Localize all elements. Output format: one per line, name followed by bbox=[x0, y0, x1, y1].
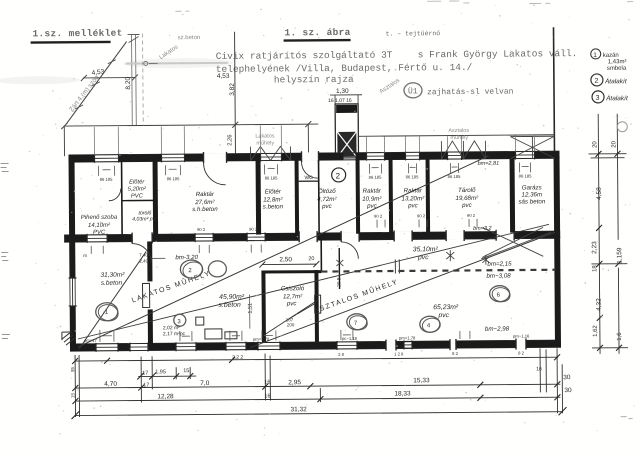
svg-text:1.sz. melléklet: 1.sz. melléklet bbox=[32, 28, 122, 40]
svg-text:20: 20 bbox=[611, 140, 617, 147]
svg-text:Átalakít: Átalakít bbox=[605, 93, 629, 102]
extension line above top wall (left) bbox=[64, 124, 318, 126]
svg-text:19,68m²: 19,68m² bbox=[455, 195, 479, 202]
bottom dim labels bbox=[104, 352, 572, 415]
svg-text:45,90m²: 45,90m² bbox=[219, 294, 245, 301]
svg-text:4,58: 4,58 bbox=[596, 187, 603, 200]
svg-text:Civix ratjárítós szolgáltató 3: Civix ratjárítós szolgáltató 3T bbox=[216, 50, 393, 62]
svg-text:zajhatás-sl velvan: zajhatás-sl velvan bbox=[427, 88, 514, 98]
svg-text:2,50: 2,50 bbox=[279, 256, 292, 263]
svg-text:kazán: kazán bbox=[603, 53, 619, 59]
radiators bbox=[143, 282, 321, 314]
svg-text:90 2: 90 2 bbox=[197, 227, 206, 232]
svg-text:bm=2,15: bm=2,15 bbox=[487, 261, 512, 268]
svg-text:15,33: 15,33 bbox=[413, 377, 430, 384]
svg-text:20: 20 bbox=[592, 141, 598, 148]
svg-text:műhely: műhely bbox=[450, 135, 468, 141]
typed paragraph bbox=[216, 48, 578, 99]
svg-text:s.h.beton: s.h.beton bbox=[192, 206, 218, 213]
svg-text:10,9m²: 10,9m² bbox=[362, 196, 382, 203]
svg-text:8 2: 8 2 bbox=[452, 351, 459, 356]
svg-text:20: 20 bbox=[308, 256, 314, 262]
ticks on courtyard diagonal bbox=[75, 35, 141, 110]
csiszolo arrows bbox=[265, 300, 318, 334]
svg-text:4,70: 4,70 bbox=[104, 381, 117, 388]
svg-text:15: 15 bbox=[70, 393, 75, 399]
svg-text:PVC: PVC bbox=[93, 230, 106, 236]
tiny dim marks in room 31,30 bbox=[83, 252, 148, 264]
svg-text:7,0: 7,0 bbox=[200, 380, 209, 387]
small asterisk mark bbox=[336, 250, 489, 266]
svg-text:90 2: 90 2 bbox=[249, 227, 258, 232]
svg-text:Tárolő: Tárolő bbox=[458, 187, 476, 194]
boiler (kazan) bbox=[335, 104, 358, 158]
svg-text:4,53: 4,53 bbox=[91, 68, 105, 76]
workbench in 45,90 room bbox=[196, 317, 237, 339]
courtyard line x=237 with 3,82 bbox=[229, 32, 237, 154]
bottom wall bbox=[70, 338, 561, 353]
svg-text:smbela: smbela bbox=[607, 66, 627, 72]
svg-text:86 185: 86 185 bbox=[406, 174, 420, 179]
svg-text:31,30m²: 31,30m² bbox=[100, 272, 125, 279]
bottom-left corner hatch bbox=[62, 332, 75, 345]
svg-text:Asztalos: Asztalos bbox=[448, 128, 469, 134]
svg-text:13,20m²: 13,20m² bbox=[401, 195, 425, 202]
svg-text:pm=17: pm=17 bbox=[84, 338, 98, 343]
svg-text:Csiszoló: Csiszoló bbox=[281, 285, 305, 292]
svg-text:pvc: pvc bbox=[437, 312, 449, 319]
svg-text:2: 2 bbox=[336, 171, 341, 180]
title: 1.sz. melleklet bbox=[30, 28, 122, 44]
left bottom rotated tiny labels bbox=[70, 367, 75, 399]
svg-text:30: 30 bbox=[563, 374, 571, 381]
extension line above top wall (right) bbox=[358, 135, 554, 137]
title: 1. sz. abra bbox=[283, 26, 440, 42]
svg-text:90 2: 90 2 bbox=[374, 214, 383, 219]
svg-text:86 185: 86 185 bbox=[448, 174, 462, 179]
svg-text:Raktár: Raktár bbox=[404, 187, 423, 194]
svg-text:s.beton: s.beton bbox=[219, 302, 242, 309]
svg-text:17: 17 bbox=[142, 370, 148, 376]
svg-text:86 185: 86 185 bbox=[519, 173, 533, 178]
slash ticks on extension line bbox=[61, 121, 311, 129]
svg-text:8,20: 8,20 bbox=[125, 77, 132, 90]
svg-text:3: 3 bbox=[596, 95, 600, 102]
svg-text:pc~1,18: pc~1,18 bbox=[342, 336, 358, 341]
svg-text:31,32: 31,32 bbox=[290, 406, 307, 413]
truss over asztalos muhely door bbox=[441, 141, 485, 159]
svg-text:20 8: 20 8 bbox=[336, 277, 342, 287]
left edge stray marks bbox=[1, 164, 10, 339]
room labels top row bbox=[80, 173, 546, 236]
svg-text:bm~3,08: bm~3,08 bbox=[486, 273, 511, 280]
courtyard dim 8,20 vertical bbox=[125, 35, 140, 126]
svg-text:1,159: 1,159 bbox=[616, 247, 623, 264]
svg-text:4,72m²: 4,72m² bbox=[317, 196, 337, 203]
svg-text:Átalakít: Átalakít bbox=[604, 76, 628, 85]
svg-text:Előtér: Előtér bbox=[129, 179, 145, 185]
svg-text:14,10m²: 14,10m² bbox=[88, 223, 111, 229]
property boundary line right of plan bbox=[553, 27, 556, 152]
svg-text:18: 18 bbox=[592, 265, 598, 272]
top wall bbox=[68, 149, 559, 164]
svg-text:86 185: 86 185 bbox=[265, 175, 279, 180]
svg-text:200: 200 bbox=[287, 322, 295, 327]
blobs (hand-drawn circles) bbox=[95, 258, 510, 335]
svg-text:2,40: 2,40 bbox=[139, 258, 148, 263]
svg-text:2: 2 bbox=[594, 78, 598, 85]
svg-text:m: m bbox=[83, 253, 87, 258]
svg-text:30: 30 bbox=[564, 387, 572, 394]
svg-text:5,20m²: 5,20m² bbox=[128, 186, 147, 192]
svg-text:Lakatos: Lakatos bbox=[255, 133, 275, 139]
svg-text:1,95: 1,95 bbox=[155, 369, 166, 375]
small ticks under mid wall bbox=[91, 219, 477, 254]
sketchy double strokes on blobs bbox=[96, 258, 511, 337]
svg-text:pm=1,78: pm=1,78 bbox=[253, 336, 270, 341]
middle wall bbox=[64, 229, 560, 244]
truss over garage door bbox=[510, 136, 554, 158]
svg-text:Ü1: Ü1 bbox=[408, 87, 418, 96]
svg-text:16: 16 bbox=[536, 366, 542, 372]
svg-text:86 185: 86 185 bbox=[100, 177, 114, 182]
svg-text:PVC: PVC bbox=[131, 193, 144, 199]
svg-text:16: 16 bbox=[264, 393, 270, 399]
slash ticks bottom bbox=[71, 354, 566, 419]
svg-text:3,82: 3,82 bbox=[229, 83, 236, 96]
right wall bbox=[553, 152, 561, 347]
svg-text:Előtér: Előtér bbox=[265, 188, 282, 195]
right dim labels (rotated) bbox=[590, 140, 624, 341]
svg-text:12,7m²: 12,7m² bbox=[283, 293, 303, 300]
svg-text:1,6: 1,6 bbox=[617, 332, 623, 341]
svg-text:pvc: pvc bbox=[366, 203, 378, 210]
svg-text:90 2: 90 2 bbox=[417, 213, 426, 218]
svg-text:7,40: 7,40 bbox=[139, 252, 148, 257]
left wall bbox=[68, 155, 76, 351]
legend bbox=[591, 49, 629, 103]
svg-text:·1: ·1 bbox=[103, 310, 109, 316]
svg-text:4,03m² pvc: 4,03m² pvc bbox=[132, 216, 158, 222]
right-side vertical dimension lines bbox=[588, 114, 628, 354]
interior walls bottom row bbox=[147, 232, 556, 345]
svg-text:35,10m²: 35,10m² bbox=[413, 246, 439, 253]
svg-text:2 8: 2 8 bbox=[338, 352, 345, 357]
window extension lines above top wall bbox=[94, 123, 534, 154]
svg-text:2,2 2: 2,2 2 bbox=[232, 355, 243, 361]
room labels bottom row bbox=[100, 246, 459, 322]
courtyard diagonal bbox=[66, 42, 128, 124]
faint top edge marks bbox=[175, 0, 633, 11]
svg-text:8 2: 8 2 bbox=[518, 350, 525, 355]
svg-text:16 1,07 16: 16 1,07 16 bbox=[328, 98, 352, 104]
svg-text:90 2: 90 2 bbox=[467, 213, 476, 218]
dims x=320 vertical bbox=[319, 388, 321, 402]
tick clusters above bottom wall bbox=[100, 327, 470, 342]
svg-text:pm=1,78: pm=1,78 bbox=[399, 335, 416, 340]
svg-text:2,95: 2,95 bbox=[288, 379, 301, 386]
svg-text:1: 1 bbox=[593, 52, 597, 59]
svg-text:helyszín rajza: helyszín rajza bbox=[274, 74, 354, 86]
svg-text:pvc: pvc bbox=[321, 203, 333, 210]
window tick clusters under top wall bbox=[99, 162, 531, 175]
svg-text:pvc: pvc bbox=[417, 254, 429, 261]
svg-text:86 185: 86 185 bbox=[369, 175, 383, 180]
svg-text:17: 17 bbox=[143, 382, 149, 388]
svg-text:bm=3,2: bm=3,2 bbox=[473, 226, 492, 232]
svg-text:1,62: 1,62 bbox=[593, 325, 599, 337]
svg-text:18,33: 18,33 bbox=[394, 390, 411, 397]
svg-text:12,28: 12,28 bbox=[157, 393, 174, 400]
svg-text:sás beton: sás beton bbox=[518, 198, 545, 205]
svg-text:1. sz. ábra: 1. sz. ábra bbox=[284, 27, 350, 39]
svg-text:1,51: 1,51 bbox=[248, 303, 254, 314]
svg-text:s.beton: s.beton bbox=[101, 280, 123, 287]
faint circled mark right bbox=[617, 122, 627, 132]
svg-text:4,32: 4,32 bbox=[596, 298, 603, 311]
door arcs bbox=[109, 162, 359, 263]
X cross top right room bbox=[481, 227, 551, 259]
svg-text:65,23m²: 65,23m² bbox=[433, 304, 459, 311]
courtyard dim 4,53 bbox=[81, 68, 138, 81]
svg-text:bm~2,98: bm~2,98 bbox=[485, 326, 510, 333]
svg-text:sz.beton: sz.beton bbox=[178, 35, 201, 41]
svg-text:s.beton: s.beton bbox=[263, 203, 284, 210]
svg-text:Pihenő szoba: Pihenő szoba bbox=[81, 215, 118, 221]
svg-text:műhely: műhely bbox=[256, 140, 274, 146]
circled 2 near boiler bbox=[332, 168, 346, 182]
truss over lakatos muhely door bbox=[250, 146, 290, 160]
svg-text:1,30: 1,30 bbox=[336, 88, 349, 95]
svg-text:pvc: pvc bbox=[407, 202, 419, 209]
svg-text:Raktár: Raktár bbox=[363, 188, 382, 195]
svg-text:pvc: pvc bbox=[286, 300, 298, 307]
tiny labels under bottom wall bbox=[338, 350, 525, 356]
right dim slash ticks bbox=[595, 151, 622, 351]
svg-text:Öltöző: Öltöző bbox=[318, 188, 336, 195]
svg-text:15: 15 bbox=[183, 368, 189, 374]
dim 2,50 over csiszolo bbox=[259, 256, 319, 267]
boiler dim 1,30 bbox=[328, 88, 362, 131]
svg-text:pm~1,16: pm~1,16 bbox=[513, 333, 530, 338]
interior walls top row bbox=[122, 159, 516, 236]
svg-text:1 2 8: 1 2 8 bbox=[394, 351, 404, 356]
svg-text:t. – tejtűérnő: t. – tejtűérnő bbox=[386, 30, 441, 37]
circled U1 note bbox=[404, 83, 422, 98]
svg-text:4,53: 4,53 bbox=[217, 73, 230, 80]
svg-text:2,23: 2,23 bbox=[591, 241, 598, 254]
svg-text:Raktár: Raktár bbox=[196, 191, 215, 198]
svg-text:pvc: pvc bbox=[461, 202, 473, 209]
svg-text:16: 16 bbox=[264, 379, 270, 385]
svg-text:1,43m²: 1,43m² bbox=[608, 59, 627, 65]
svg-text:2,26: 2,26 bbox=[227, 134, 233, 145]
svg-text:86 185: 86 185 bbox=[167, 176, 181, 181]
svg-text:bm=2,81: bm=2,81 bbox=[478, 161, 500, 167]
